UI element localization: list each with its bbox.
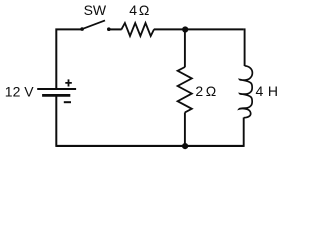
value label 12 V <box>5 84 34 100</box>
battery + polarity mark <box>65 79 72 86</box>
svg-text:4: 4 <box>129 2 137 18</box>
value label 4 H <box>256 83 279 99</box>
value label 2 Ω <box>195 83 216 99</box>
wire top-right corner down to inductor <box>244 28 246 66</box>
svg-text:Ω: Ω <box>139 2 149 18</box>
resistor 2Ω <box>178 67 192 112</box>
svg-text:H: H <box>268 83 278 99</box>
svg-text:4: 4 <box>256 83 264 99</box>
inductor 4H coil <box>239 66 252 118</box>
svg-text:2: 2 <box>195 83 203 99</box>
battery 12V bottom plate (-) <box>42 94 70 97</box>
bottom wire from bottom-left corner to bottom-right corner <box>56 145 243 147</box>
resistor 4Ω <box>121 23 154 36</box>
svg-text:12 V: 12 V <box>5 84 34 100</box>
svg-text:Ω: Ω <box>206 83 216 99</box>
value label 4 Ω <box>129 2 149 18</box>
wire from node A to top-right corner <box>185 28 244 30</box>
battery - polarity mark <box>64 101 71 103</box>
wire from inductor down to bottom-right corner <box>243 118 245 147</box>
wire from battery - terminal down to bottom-left corner <box>55 95 57 146</box>
battery 12V top plate (+) <box>37 88 76 90</box>
wire from switch to resistor 4Ω <box>109 28 122 30</box>
wire from resistor 2Ω down to node B <box>184 112 186 145</box>
label SW <box>84 2 107 18</box>
wire from node A down to resistor 2Ω <box>184 29 186 67</box>
wire from resistor 4Ω to node A <box>154 28 185 30</box>
switch SW <box>80 20 110 31</box>
svg-text:SW: SW <box>84 2 107 18</box>
node A top junction dot <box>182 26 188 32</box>
wire from battery + terminal up and right to switch <box>56 29 82 89</box>
node B bottom junction dot <box>182 143 188 149</box>
